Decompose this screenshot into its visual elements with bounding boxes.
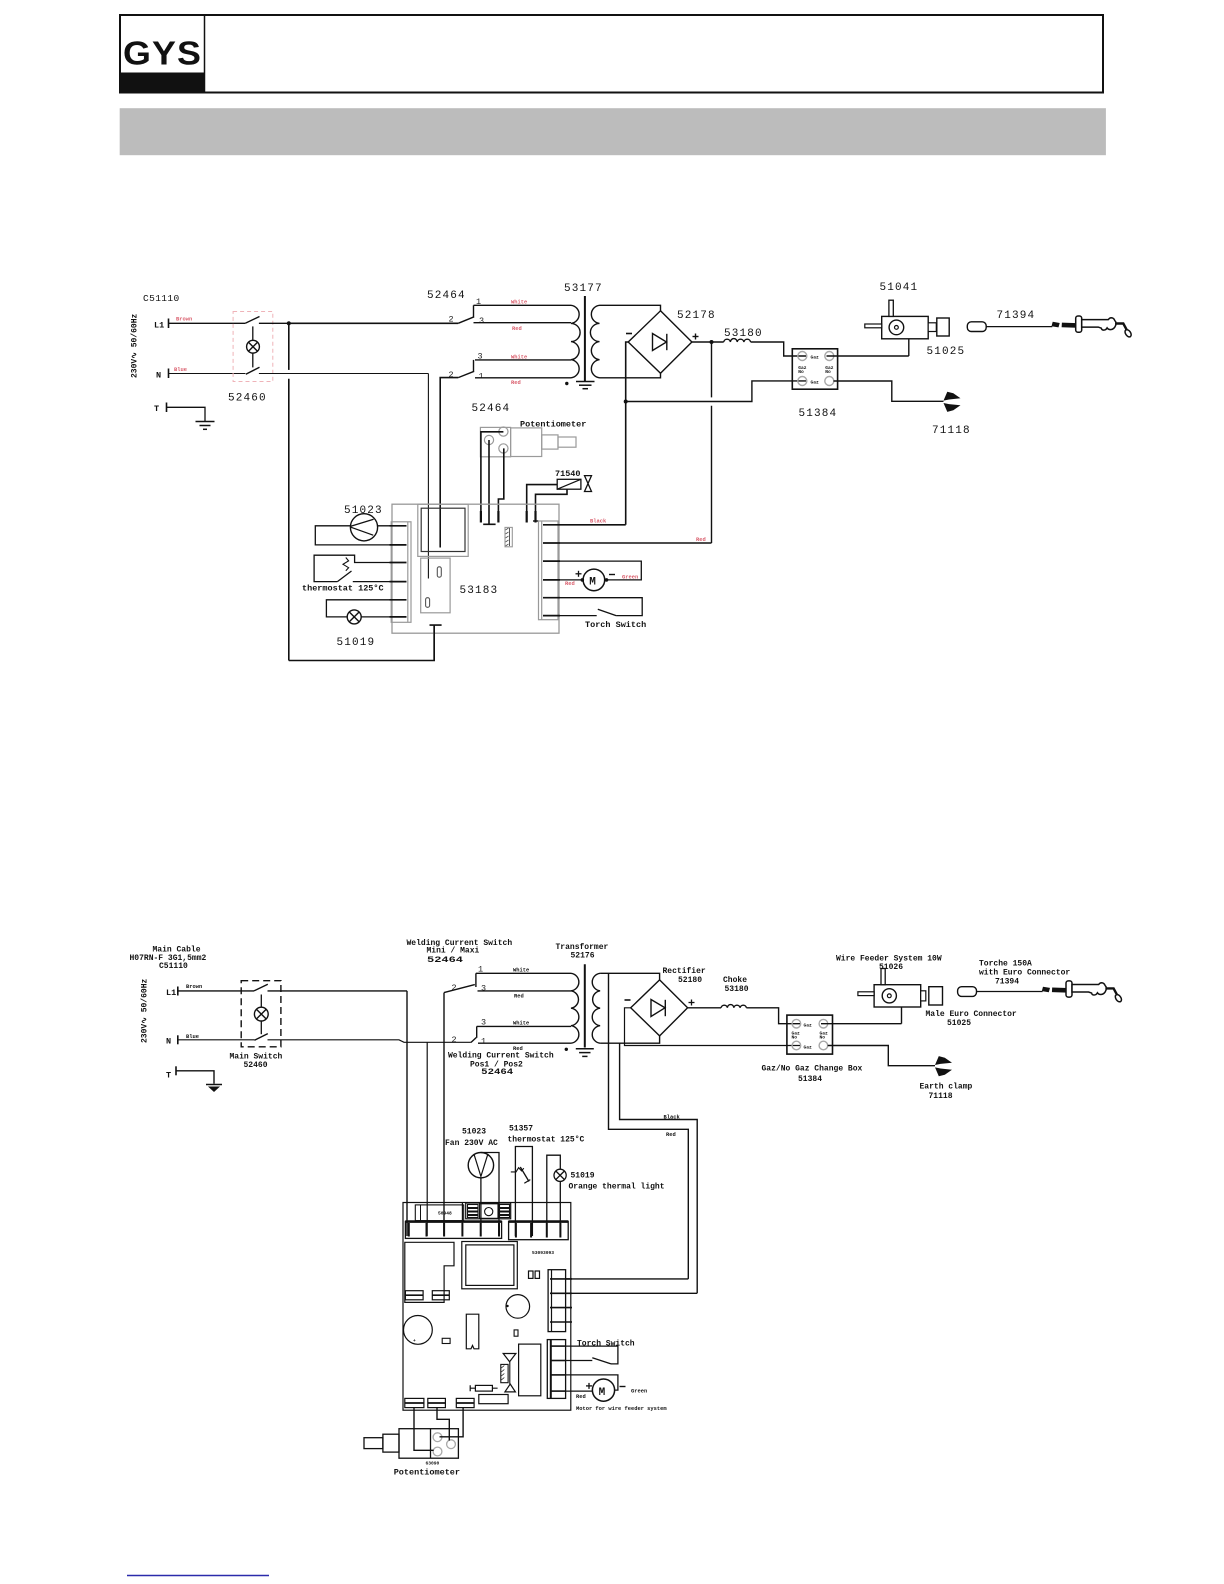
solenoid valve symbol [585,476,592,492]
svg-text:53183: 53183 [460,585,499,597]
svg-text:52464: 52464 [481,1068,513,1077]
PCB connector strip D (d2) [547,1340,565,1399]
svg-text:50948: 50948 [438,1211,452,1217]
main switch lamp lower lead [252,353,254,367]
rectifier diode symbol (d2) [651,1000,665,1017]
main switch N contact wire with jog (d2) [268,1040,471,1043]
wire choke to gas box (d2) [746,1008,800,1024]
svg-text:Blue: Blue [174,367,187,373]
svg-text:Green: Green [622,575,638,581]
main switch L1 contact wire (d2) [268,990,408,992]
ground symbol transformer (d2) [576,1049,594,1057]
wire V1 L1 to PCB (d2) [406,991,408,1236]
PCB connector strip C (d2) [548,1270,566,1332]
wire Red (plus rail to PCB pin2) [560,542,712,544]
svg-text:thermostat 125°C: thermostat 125°C [302,583,384,593]
gray title band [120,108,1106,155]
PCB left connector strip [391,522,411,623]
lamp 51019 loop (d2) [547,1155,561,1236]
welding switch lower contact bar (d2) [476,1026,478,1037]
wire feeder to gas box wire [908,339,910,356]
wire bottom run to PCB bottom pin [289,626,434,661]
main switch L1 pole arm [245,317,259,324]
wire N drop to PCB [427,374,429,579]
svg-text:Blue: Blue [186,1034,199,1040]
svg-text:51019: 51019 [571,1172,595,1181]
PCB lower white box [421,558,450,613]
svg-text:71118: 71118 [932,425,971,437]
svg-text:Torche 150A: Torche 150A [979,959,1032,968]
torch switch loop (d2) [566,1346,618,1364]
lamp 51019 wire loop [326,600,390,617]
wire feeder output stub [928,323,936,332]
svg-text:Motor for wire feeder system: Motor for wire feeder system [576,1406,667,1412]
svg-text:Gaz: Gaz [804,1022,813,1028]
PCB vertical rect (d2) [466,1314,479,1349]
thermostat wire loop [314,555,390,581]
GYS logo black bar [121,73,204,94]
motor circle (d2) [592,1379,614,1401]
svg-text:2: 2 [449,370,454,380]
male euro connector 51025 [937,318,949,336]
svg-text:Red: Red [696,537,706,543]
svg-text:Brown: Brown [186,984,202,990]
svg-text:53093093: 53093093 [532,1250,554,1256]
wire feeder roller (d2) [882,989,896,1003]
strip A pins [409,1223,499,1237]
svg-text:T: T [166,1070,171,1080]
strip C pins [550,1279,572,1322]
gas box circles (d2) [792,1019,828,1049]
svg-text:Potentiometer: Potentiometer [394,1468,460,1478]
svg-text:51384: 51384 [798,1075,822,1084]
PCB rect c (d2) [479,1395,508,1404]
svg-text:53180: 53180 [725,985,749,994]
main switch dashed box (d2) [241,981,281,1047]
svg-text:Red: Red [514,994,524,1000]
choke coil (d2) [721,1005,746,1008]
svg-text:Red: Red [666,1132,676,1138]
main switch L1 fixed contact wire [259,322,289,324]
wire choke to gas box [751,342,806,356]
svg-text:No: No [825,369,831,375]
PCB bottom terminal 3 (d2) [456,1398,474,1407]
PCB heatsink terminal 1 [405,1291,423,1300]
wire rectifier plus to choke [692,341,724,343]
wire N to main switch [169,373,246,375]
svg-text:52464: 52464 [427,956,463,965]
thermostat switch symbol (d2) [511,1168,524,1172]
rectifier minus sign [626,333,632,335]
svg-text:White: White [511,299,527,305]
welding switch upper arm [458,317,474,324]
solenoid valve 71540 body [557,479,581,489]
torch switch arm (d2) [592,1358,611,1364]
rectifier minus sign (d2) [625,999,631,1001]
strip B pins [516,1223,561,1238]
potentiometer circles (d2) [433,1433,455,1456]
wire V2 N to PCB (d2) [426,1042,428,1236]
svg-text:L1: L1 [166,988,176,998]
motor minus sign [609,574,615,576]
svg-text:51025: 51025 [927,346,966,358]
svg-text:71118: 71118 [929,1092,953,1101]
wire pin C2 to vertical B (d2) [566,1292,698,1294]
potentiometer body (d1) [480,427,576,457]
wire gas box to earth clamp (d2) [828,1046,935,1066]
transformer secondary winding bumps [590,305,599,378]
gaz/no gaz change box (d2) [787,1015,833,1054]
svg-text:Rectifier: Rectifier [663,967,706,976]
svg-text:M: M [599,1387,606,1399]
rectifier 52178 diamond [628,311,692,374]
svg-text:Main Cable: Main Cable [153,945,201,954]
transformer phase dot (d2) [565,1048,568,1051]
PCB top pins [480,511,482,523]
PCB connector strip B (d2) [509,1221,569,1239]
solenoid wire 2 to PCB [536,489,568,521]
svg-text:+: + [413,1339,416,1344]
ground symbol T (d2) [206,1084,222,1086]
lamp 51019 symbol (d2) [554,1169,566,1181]
gas box terminal circles [798,352,834,386]
svg-text:Choke: Choke [723,976,747,985]
pot wire A to PCB [481,432,504,523]
rectifier diamond (d2) [631,980,688,1036]
wire feeder pipe (d2) [858,992,874,996]
svg-text:GYS: GYS [123,35,202,72]
transformer primary bumps (d2) [571,973,579,1043]
main switch lamp upper lead [252,326,254,340]
PCB bottom terminal 2 (d2) [428,1398,446,1407]
svg-text:Black: Black [590,519,607,525]
pot wire 1 (d2) [414,1408,434,1451]
svg-text:N: N [166,1037,171,1047]
svg-text:C51110: C51110 [143,293,180,304]
junction node plus rail [710,340,714,344]
wire B bottom rail to PCB Black (d2) [620,1043,698,1293]
fan 51023 circle [350,514,377,541]
svg-text:L1: L1 [154,321,164,331]
fan circle (d2) [468,1153,493,1178]
male euro connector (d2) [929,987,943,1005]
pot wire B to PCB [483,440,495,524]
svg-text:M: M [589,577,596,589]
wire gas box to wire feeder [827,355,909,357]
earth clamp 71118 [944,392,961,412]
transformer core (d2) [584,964,586,1047]
wire feeder antenna [889,300,893,316]
svg-text:51041: 51041 [880,282,919,294]
svg-text:52180: 52180 [678,976,702,985]
svg-text:White: White [513,1021,529,1027]
svg-text:1: 1 [481,1037,486,1047]
main switch N arm (d2) [255,1034,268,1041]
wire L1 to welding switch [289,322,458,324]
svg-text:230V∿ 50/60Hz: 230V∿ 50/60Hz [131,313,140,378]
PCB small rect a (d2) [442,1338,450,1343]
svg-text:Mini / Maxi: Mini / Maxi [427,947,480,956]
welding switch lower arm (d2) [471,1038,476,1043]
motor wire loop top [560,561,641,580]
svg-text:Fan 230V AC: Fan 230V AC [445,1139,498,1148]
main switch lamp leads (d2) [260,995,262,1008]
strip D pins [550,1346,566,1391]
wire gas box to earth clamp [834,381,944,401]
gaz/no gaz change box 51384 [792,349,837,389]
wire feeder roller circle [889,320,904,335]
wire secondary bottom to rectifier (d2) [600,1036,660,1043]
svg-text:52464: 52464 [472,403,511,415]
PCB connector strip A (d2) [405,1221,501,1238]
PCB 53183 outline [392,504,559,633]
PCB top relay box (d2) [466,1203,511,1219]
svg-text:Gaz: Gaz [811,354,820,360]
wire feeder body (d2) [874,985,921,1007]
PCB resistor h (d2) [475,1385,492,1391]
wire secondary top to rectifier (d2) [600,973,660,980]
svg-text:3: 3 [481,984,486,994]
main switch pilot lamp (d2) [254,1007,268,1021]
torch 71394 drawing [967,316,1132,338]
PCB slot 2 [426,598,430,608]
feeder output stub (d2) [921,991,926,1001]
PCB relay tall rect (d2) [519,1344,541,1396]
footer blue rule [127,1575,269,1577]
PCB slot 1 [437,567,441,577]
svg-text:230V∿ 50/60Hz: 230V∿ 50/60Hz [141,978,150,1043]
svg-text:No: No [798,369,804,375]
PCB tiny rect b (d2) [514,1330,518,1336]
wire rectifier plus to choke (d2) [688,1007,722,1009]
pot wire 3 (d2) [440,1408,464,1437]
PCB big box (d2) [462,1242,518,1289]
ground symbol (T) [196,422,215,430]
choke 53180 [724,339,751,342]
junction node minus rail [624,400,628,404]
svg-text:51025: 51025 [947,1019,971,1028]
main switch N fixed contact wire [259,373,429,375]
svg-text:Torch Switch: Torch Switch [585,620,646,630]
PCB capacitor 2 (d2) [404,1316,433,1345]
svg-text:51384: 51384 [799,408,838,420]
motor plus sign (d2) [586,1383,592,1389]
wire A secondary to PCB Red (d2) [609,973,689,1279]
svg-text:51019: 51019 [337,637,376,649]
svg-text:thermostat 125°C: thermostat 125°C [508,1136,585,1145]
svg-text:No: No [820,1035,826,1041]
transformer primary lines (d2) [476,973,571,1043]
PCB heatsink outline (d2) [405,1242,454,1302]
PCB capacitor 1 (d2) [506,1295,530,1319]
wire feeder body 51041 [882,316,929,338]
svg-text:Black: Black [664,1114,681,1120]
svg-text:Orange thermal light: Orange thermal light [569,1183,665,1192]
strip A stub pin wire [461,1203,463,1223]
wire Black (rectifier minus to PCB pin1) [560,524,626,526]
main switch N pole arm [246,367,260,374]
wire minus rail to gas box [626,381,806,402]
motor feed wire [560,579,583,581]
svg-text:No: No [792,1035,798,1041]
fan wire loop [315,526,390,545]
svg-text:Earth clamp: Earth clamp [920,1083,973,1092]
svg-text:Gaz/No Gaz Change Box: Gaz/No Gaz Change Box [762,1064,863,1073]
svg-text:52178: 52178 [677,310,716,322]
wire N into main switch (d2) [178,1039,255,1041]
earth clamp symbol (d2) [935,1056,952,1076]
wire V3 welding switch common to PCB (d2) [443,993,445,1236]
PCB two tiny squares [529,1271,534,1278]
PCB right connector pins [543,525,560,616]
wire vertical drop from L1 junction (lower part, hops N) [288,379,290,661]
transformer phase dot [565,382,568,385]
wire pin C1 to vertical A (d2) [566,1278,689,1280]
svg-text:Red: Red [565,581,575,587]
header frame box [120,15,1103,93]
transformer primary winding bumps [571,305,580,378]
svg-text:Male Euro Connector: Male Euro Connector [926,1010,1017,1019]
svg-text:51023: 51023 [462,1128,486,1137]
potentiometer body (d2) [399,1429,458,1459]
svg-text:1: 1 [479,372,484,382]
svg-text:3: 3 [479,316,484,326]
transformer secondary bumps (d2) [592,973,600,1043]
wire vertical drop from L1 junction (upper part) [288,323,290,370]
welding switch lower contact bar [473,360,475,372]
PCB outline (d2) [403,1203,571,1411]
ground symbol (transformer core) [576,382,595,389]
PCB top box 1 (d2) [415,1205,463,1221]
svg-text:T: T [154,404,159,414]
transformer primary winding lines [474,305,572,378]
motor plus sign [576,571,582,577]
solenoid wire 1 to PCB [527,485,558,523]
svg-text:71394: 71394 [997,310,1036,322]
motor loop (d2) [566,1375,618,1391]
pot wire 2 (d2) [437,1408,449,1441]
junction node on L1 [287,321,291,325]
torch switch wire loop [560,598,642,616]
svg-text:Red: Red [512,326,522,332]
PCB bottom pin [430,625,442,660]
svg-text:N: N [156,371,161,381]
svg-text:53177: 53177 [564,283,603,295]
pot wire C to PCB [498,448,503,522]
svg-text:2: 2 [452,1035,457,1045]
welding switch upper arm (d2) [444,985,475,993]
lamp 51019 symbol [347,610,361,624]
svg-text:Brown: Brown [176,317,192,323]
wire lower switch drop inside PCB [439,504,441,547]
wire T to ground [167,407,206,421]
wire gas box to feeder (d2) [821,1023,902,1025]
wire plus rail down to PCB (Red) [711,342,713,543]
thermostat leads (d2) [515,1147,532,1237]
wire rectifier minus to gas box (d2) [625,1008,801,1046]
wire T to ground (d2) [176,1071,214,1084]
rectifier plus sign [693,334,699,340]
wire from PCB to lower switch common [440,378,458,505]
PCB small hatched connector [505,527,512,546]
svg-text:C51110: C51110 [159,962,188,971]
svg-text:52460: 52460 [244,1061,268,1070]
svg-text:52464: 52464 [427,290,466,302]
transformer core [584,296,586,382]
wire secondary bottom to rectifier [600,373,661,378]
welding switch upper contact bar (d2) [475,973,477,987]
torch 71394 drawing (d2) [958,981,1123,1003]
fan wires (d2) [481,1153,499,1237]
PCB left connector pins [390,526,407,617]
wire L1 to main switch [169,322,246,324]
motor terminal dots [581,578,585,582]
wire rectifier minus down [626,342,629,525]
svg-text:51357: 51357 [509,1124,533,1133]
thermostat switch symbol [337,571,351,582]
svg-text:71540: 71540 [555,469,581,479]
motor M (wire feeder motor) [583,569,605,591]
PCB heatsink terminal 2 [432,1291,449,1300]
motor minus sign (d2) [620,1386,626,1388]
svg-text:Torch Switch: Torch Switch [577,1340,635,1349]
svg-text:71394: 71394 [995,978,1019,987]
svg-text:Green: Green [631,1388,647,1394]
wire secondary top to rectifier [600,305,661,311]
welding switch lower arm [458,371,474,377]
svg-text:53180: 53180 [724,328,763,340]
PCB opto triangles (d2) [503,1354,516,1362]
rectifier diode symbol [653,334,667,351]
welding switch upper contact bar [473,305,475,317]
svg-text:Red: Red [511,380,521,386]
svg-text:Gaz: Gaz [804,1044,813,1050]
main switch L1 arm (d2) [254,984,268,991]
svg-text:63090: 63090 [426,1461,440,1467]
svg-text:52176: 52176 [571,951,595,960]
svg-text:52460: 52460 [228,393,267,405]
svg-text:Welding Current Switch: Welding Current Switch [448,1052,554,1061]
PCB top inner box [418,504,468,556]
wire feeder down to gas wire (d2) [901,1007,903,1024]
svg-text:2: 2 [452,983,457,993]
GYS logo cell divider [204,15,206,94]
main switch pilot lamp [247,340,260,353]
svg-text:Red: Red [576,1394,586,1400]
wire feeder antenna (d2) [881,969,885,985]
svg-text:2: 2 [449,315,454,325]
rectifier plus sign (d2) [689,1000,695,1006]
svg-text:with Euro Connector: with Euro Connector [979,969,1070,978]
wire L1 into main switch (d2) [178,990,254,992]
torch switch arm [598,609,616,615]
main switch 52460 dashed box [233,312,273,382]
PCB bottom terminal 1 (d2) [405,1398,424,1407]
PCB right connector strip [539,521,559,620]
wire feeder left pipe [865,324,882,328]
svg-text:Gaz: Gaz [811,379,820,385]
